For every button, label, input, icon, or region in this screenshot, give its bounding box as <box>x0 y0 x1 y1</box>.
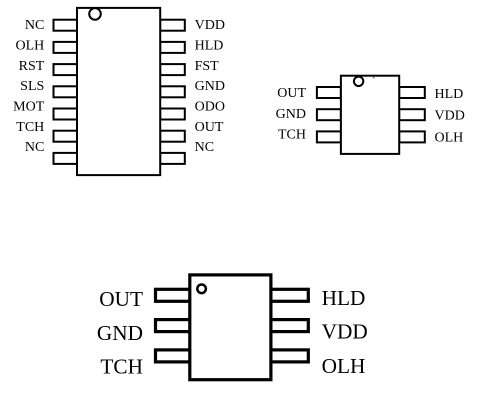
svg-text:GND: GND <box>97 321 143 345</box>
svg-text:SLS: SLS <box>20 79 44 94</box>
svg-text:TCH: TCH <box>100 355 143 379</box>
svg-text:GND: GND <box>276 107 306 122</box>
svg-text:VDD: VDD <box>435 108 465 123</box>
svg-text:NC: NC <box>25 18 44 33</box>
svg-text:NC: NC <box>25 140 44 155</box>
svg-text:VDD: VDD <box>322 320 368 344</box>
svg-text:NC: NC <box>195 140 214 155</box>
svg-text:HLD: HLD <box>435 87 464 102</box>
svg-text:OUT: OUT <box>99 287 143 311</box>
svg-text:OUT: OUT <box>277 86 306 101</box>
svg-text:TCH: TCH <box>16 120 44 135</box>
svg-text:ODO: ODO <box>195 100 225 115</box>
svg-text:HLD: HLD <box>195 39 224 54</box>
svg-text:GND: GND <box>195 79 225 94</box>
svg-text:OLH: OLH <box>435 130 464 145</box>
svg-text:VDD: VDD <box>195 18 225 33</box>
svg-text:OLH: OLH <box>16 39 45 54</box>
svg-text:RST: RST <box>19 59 45 74</box>
svg-text:MOT: MOT <box>13 100 45 115</box>
svg-text:OLH: OLH <box>322 354 366 378</box>
svg-text:OUT: OUT <box>195 120 224 135</box>
svg-text:HLD: HLD <box>322 286 366 310</box>
svg-text:FST: FST <box>195 59 220 74</box>
svg-text:TCH: TCH <box>278 128 306 143</box>
